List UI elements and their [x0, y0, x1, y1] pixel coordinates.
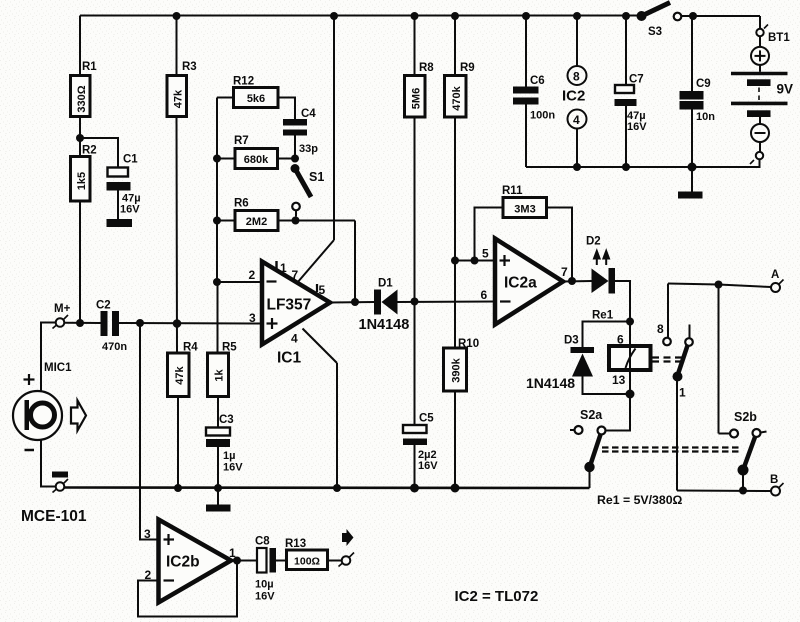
svg-text:5M6: 5M6: [411, 88, 423, 109]
junction dot R4 ground: [174, 484, 182, 492]
svg-text:470n: 470n: [102, 341, 127, 353]
svg-text:C9: C9: [696, 78, 711, 90]
junction dot S2b/B: [739, 487, 747, 495]
capacitor C9: [680, 16, 716, 172]
svg-text:1k5: 1k5: [76, 172, 88, 190]
wire M+ to mic: [41, 323, 56, 392]
junction dot C9 top: [689, 12, 697, 20]
wire R13 to output terminal: [328, 560, 342, 562]
svg-text:13: 13: [612, 373, 626, 387]
svg-text:S2b: S2b: [734, 410, 757, 424]
resistor R5: [208, 342, 238, 428]
junction dot output/feedback: [351, 298, 359, 306]
svg-text:3: 3: [144, 527, 151, 541]
wire pin7 to V+ rail: [297, 12, 338, 283]
svg-text:R11: R11: [502, 185, 523, 197]
junction dot pin5 node: [451, 257, 459, 265]
capacitor C4: [283, 108, 318, 159]
svg-text:R8: R8: [419, 62, 434, 74]
svg-text:S2a: S2a: [580, 408, 603, 422]
wire left feedback column: [216, 98, 218, 283]
wire output to C8: [231, 560, 257, 562]
wire M+ to C2: [64, 322, 100, 324]
svg-text:7: 7: [292, 268, 299, 282]
wire mic signal to IC2b pin3: [140, 323, 159, 540]
svg-text:C8: C8: [255, 536, 270, 548]
wire IC2b feedback: [138, 561, 237, 617]
LED D2: [586, 236, 615, 294]
terminal A: [771, 269, 784, 292]
svg-text:C6: C6: [530, 75, 545, 87]
svg-text:16V: 16V: [223, 462, 243, 474]
svg-text:10n: 10n: [696, 111, 715, 123]
svg-text:16V: 16V: [627, 121, 647, 133]
diode D1: [359, 278, 410, 334]
ground below C1: [107, 219, 133, 227]
svg-text:R10: R10: [458, 338, 479, 350]
svg-text:10µ: 10µ: [255, 579, 274, 591]
svg-text:IC2: IC2: [562, 88, 585, 105]
wire A line: [668, 284, 771, 288]
capacitor C2: [96, 300, 127, 354]
svg-text:390k: 390k: [451, 357, 463, 382]
svg-text:MIC1: MIC1: [44, 362, 72, 374]
svg-text:680k: 680k: [244, 154, 269, 166]
svg-text:R5: R5: [222, 342, 237, 354]
svg-text:C5: C5: [419, 413, 434, 425]
svg-text:R7: R7: [234, 135, 249, 147]
resistor R11: [475, 185, 573, 281]
wire pin2 node down to R5: [217, 282, 219, 353]
svg-text:BT1: BT1: [768, 32, 790, 44]
svg-text:C2: C2: [96, 300, 111, 312]
capacitor C3: [206, 414, 243, 488]
svg-text:M+: M+: [54, 303, 71, 315]
svg-text:C4: C4: [301, 108, 316, 120]
svg-text:47k: 47k: [174, 365, 186, 384]
svg-text:Re1: Re1: [592, 310, 614, 322]
terminal M+: [53, 303, 71, 329]
junction node R1/R2/C1: [76, 134, 84, 142]
ground below C9: [678, 167, 703, 199]
wire D2 to relay: [615, 281, 630, 322]
svg-text:3M3: 3M3: [514, 204, 535, 216]
wire R2 to M+ line: [79, 201, 81, 323]
svg-text:1: 1: [280, 261, 287, 275]
svg-text:1N4148: 1N4148: [359, 317, 410, 333]
resistor R1: [71, 16, 98, 117]
microphone MIC1: [13, 362, 72, 450]
junction dot R2 bottom: [76, 319, 84, 327]
svg-text:D1: D1: [378, 278, 393, 290]
svg-text:D2: D2: [586, 236, 601, 248]
wire pin5: [455, 260, 495, 262]
junction dot IC2b output: [233, 557, 241, 565]
wire ground rail: [64, 486, 589, 489]
junction dot relay top: [626, 318, 634, 326]
switch S2b: [719, 285, 767, 491]
relay contact blade 1: [673, 325, 693, 491]
switch S2a: [570, 394, 630, 488]
svg-text:C7: C7: [629, 74, 644, 86]
svg-text:IC1: IC1: [277, 350, 302, 367]
battery BT1: [731, 25, 793, 165]
capacitor C8: [255, 536, 276, 603]
svg-text:6: 6: [481, 288, 488, 302]
svg-text:100Ω: 100Ω: [294, 556, 320, 568]
op-amp IC1: [249, 261, 331, 367]
svg-text:2: 2: [249, 268, 256, 282]
junction dot pin2 node: [213, 278, 221, 286]
resistor R3: [167, 12, 197, 117]
wire C2 to IC1 pin3: [119, 322, 262, 325]
svg-text:S3: S3: [648, 26, 662, 38]
op-amp IC2b: [144, 520, 236, 603]
junction dot A/S2b: [715, 281, 723, 289]
IC2 power pins circles: [562, 12, 587, 171]
svg-text:MCE-101: MCE-101: [21, 508, 87, 525]
svg-text:1: 1: [679, 386, 686, 400]
wire top rail right of S3: [682, 15, 761, 17]
svg-text:R13: R13: [285, 538, 306, 550]
svg-text:IC2a: IC2a: [504, 275, 537, 292]
wire R12 to C4: [278, 98, 295, 120]
resistor R13: [285, 538, 328, 570]
wire IC2a output: [563, 280, 592, 283]
svg-text:A: A: [771, 269, 779, 281]
svg-text:R9: R9: [460, 62, 475, 74]
svg-text:IC2 = TL072: IC2 = TL072: [455, 588, 539, 605]
junction dot C3 ground: [214, 484, 222, 492]
junction dot detector node: [411, 298, 419, 306]
wire detector node to C5: [414, 302, 416, 426]
svg-text:4: 4: [291, 332, 298, 346]
junction dot IC2b feed: [136, 319, 144, 327]
dashed linkage relay to contact: [652, 358, 682, 362]
junction dot output/R11: [568, 277, 576, 285]
svg-text:C3: C3: [219, 414, 234, 426]
svg-text:47k: 47k: [173, 89, 185, 108]
junction dot C5 ground: [410, 484, 419, 493]
resistor R4: [168, 342, 199, 489]
resistor R7: [213, 135, 295, 169]
arrow sound input: [71, 401, 86, 431]
switch S1: [291, 164, 325, 217]
svg-text:D3: D3: [564, 335, 579, 347]
terminal M-: [53, 479, 69, 493]
svg-text:R1: R1: [82, 61, 97, 73]
dashed linkage S2a to S2b: [602, 448, 741, 452]
svg-text:33p: 33p: [299, 143, 318, 155]
svg-text:9V: 9V: [777, 82, 794, 97]
svg-text:R12: R12: [233, 76, 254, 88]
wire feedback to output: [354, 221, 356, 303]
capacitor C1: [107, 154, 141, 220]
wire R1 to R2: [79, 117, 81, 157]
svg-text:1N4148: 1N4148: [526, 375, 575, 391]
wire D1 to pin6: [398, 301, 496, 304]
capacitor C5: [403, 413, 438, 489]
svg-text:8: 8: [573, 70, 580, 84]
svg-text:6: 6: [617, 333, 624, 347]
svg-text:IC2b: IC2b: [166, 554, 200, 571]
svg-text:16V: 16V: [120, 204, 140, 216]
svg-text:LF357: LF357: [267, 297, 312, 314]
svg-text:8: 8: [657, 322, 664, 336]
svg-text:Re1 = 5V/380Ω: Re1 = 5V/380Ω: [597, 493, 683, 507]
svg-text:5k6: 5k6: [247, 93, 265, 105]
ground below rail at C3: [206, 488, 231, 512]
svg-text:4: 4: [573, 113, 580, 127]
resistor R8: [405, 12, 435, 302]
svg-text:470k: 470k: [451, 85, 463, 110]
resistor R12: [217, 76, 278, 108]
junction dot R11 tap: [471, 257, 479, 265]
junction dot relay bottom: [626, 390, 635, 399]
svg-text:3: 3: [249, 311, 256, 325]
resistor R9: [445, 12, 475, 348]
svg-text:R2: R2: [82, 145, 97, 157]
svg-text:C1: C1: [123, 154, 138, 166]
diode D3: [526, 322, 630, 395]
svg-text:1k: 1k: [214, 369, 226, 382]
svg-text:5: 5: [319, 283, 326, 297]
svg-text:B: B: [770, 474, 778, 486]
capacitor C7: [615, 12, 648, 171]
op-amp IC2a: [481, 239, 569, 325]
svg-text:330Ω: 330Ω: [76, 85, 88, 112]
arrow audio output: [342, 529, 354, 546]
junction dot R10 ground: [451, 484, 460, 493]
svg-text:1µ: 1µ: [223, 450, 235, 462]
ground bar at M-: [52, 472, 68, 478]
terminal audio out: [339, 553, 355, 567]
svg-text:100n: 100n: [530, 110, 555, 122]
svg-text:R4: R4: [183, 342, 198, 354]
svg-text:16V: 16V: [418, 460, 438, 472]
resistor R10: [444, 338, 480, 488]
junction dot R6/S1: [292, 217, 300, 225]
svg-text:R3: R3: [182, 61, 197, 73]
svg-text:R6: R6: [234, 198, 249, 210]
resistor R2: [71, 145, 97, 202]
wire B line: [677, 490, 771, 493]
resistor R6: [213, 198, 355, 231]
wire to C1: [80, 138, 118, 168]
relay contact 8: [657, 284, 671, 346]
wire IC1 output: [330, 301, 374, 304]
wire pin2: [217, 281, 262, 283]
wire R3 down to pin3 node: [176, 117, 179, 354]
wire C8 to R13: [276, 560, 287, 562]
svg-text:2M2: 2M2: [246, 216, 267, 228]
svg-text:7: 7: [561, 265, 568, 279]
wire BT1 minus to bottom rail: [526, 159, 760, 167]
junction dot R7/C4/S1: [291, 155, 299, 163]
wire pin4 to ground rail: [303, 329, 342, 493]
svg-text:16V: 16V: [255, 591, 275, 603]
wire to BT1: [759, 16, 761, 29]
terminal B: [770, 474, 784, 496]
wire mic minus down: [41, 440, 56, 487]
junction dot R3/R4 bias node: [173, 319, 182, 328]
switch S3: [637, 3, 682, 39]
svg-text:S1: S1: [309, 170, 324, 184]
relay coil Re1: [592, 310, 651, 395]
svg-text:5: 5: [482, 247, 489, 261]
capacitor C6: [513, 12, 555, 167]
wire top supply rail left: [80, 15, 641, 17]
